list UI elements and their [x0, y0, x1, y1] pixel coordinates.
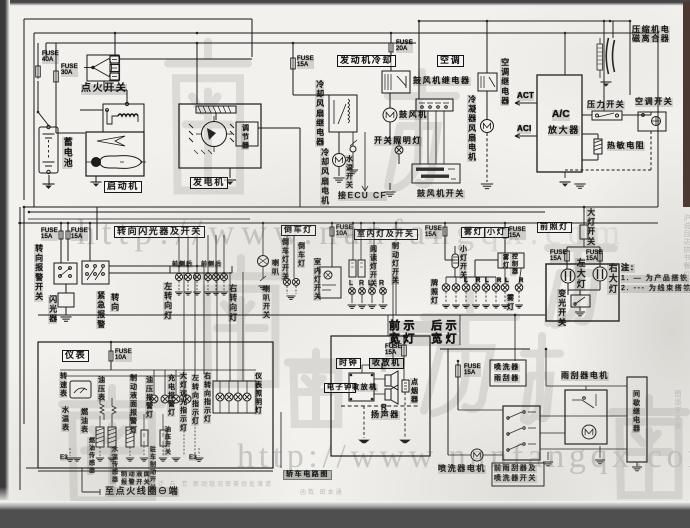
label FUSE 30A [61, 64, 78, 77]
label panel illumination 仪表照明灯 [254, 372, 262, 415]
fuse FUSE15A radio [402, 343, 407, 358]
label high beam ind 大灯远光指示灯 [179, 372, 187, 432]
label oil switch 油压开关 [163, 426, 169, 456]
parking brake switch sym [141, 430, 148, 446]
label thermistor 热敏电阻 [607, 142, 645, 151]
wire washer fuse rail [457, 361, 459, 410]
label brake fluid warn switch line2 [121, 480, 151, 486]
fuse FUSE15A head R [598, 249, 603, 263]
wire washer links [448, 349, 637, 466]
label front rear marker 前示 后示 [389, 321, 460, 333]
junction node 2 [196, 32, 199, 35]
wire illum feeds [220, 381, 247, 393]
label fog lamps 雾灯 [506, 294, 514, 311]
label AC switch 空调开关 [635, 98, 673, 107]
label water temp switch 水温开关 [345, 155, 353, 189]
ground left turn front [175, 292, 183, 295]
horn 喇叭 [258, 256, 269, 267]
fuse FUSE15A fog [443, 225, 447, 238]
ghost marks in maroon bar [684, 20, 690, 68]
ground lamp row 2 [455, 292, 457, 304]
wire pressure sw leads [582, 112, 651, 115]
label blower relay 鼓风机继电器 [413, 77, 471, 86]
label title 转向闪光器及开关 [114, 226, 205, 238]
note line 2 [621, 285, 690, 293]
ground lamp row 4 [475, 292, 477, 304]
water temp switch 水温开关 [350, 132, 357, 168]
label FUSE 15A radio [385, 344, 402, 357]
label R at 478 [476, 278, 480, 284]
label reverse lamp right 倒车灯 [297, 242, 305, 268]
label FUSE 15A turn2 [71, 228, 88, 241]
wire blower leads [389, 93, 391, 145]
wire int fuse rail [331, 223, 333, 267]
wm glyph fang 1 [388, 72, 456, 188]
label AC relay 空调继电器 [500, 58, 509, 106]
label washer motor right 喷洗[器电机] [437, 465, 439, 467]
junction node 6 [486, 20, 489, 23]
label brake fluid warn lamp 制动液面报警灯 [129, 374, 137, 434]
label instruments 仪表 [62, 350, 89, 362]
watermark url row 1 [77, 211, 627, 253]
junction node 30 [196, 265, 199, 268]
wire illum lamp lead [398, 140, 400, 164]
wire ACI arrow [515, 134, 537, 138]
speaker L [385, 371, 398, 390]
wire horn leads [260, 223, 266, 281]
junction node 28 [178, 265, 181, 268]
map lamp sockets [349, 260, 365, 277]
wire illum gnds [220, 401, 247, 413]
ghost column right margin [681, 214, 690, 294]
lamp left turn side [184, 273, 191, 280]
wire blower fuse rail [390, 33, 392, 71]
ground left turn side [184, 292, 192, 295]
label FUSE 40A [42, 51, 59, 64]
wire lamp top feeds [170, 266, 232, 273]
junction node 31 [207, 272, 210, 275]
junction node 35 [514, 314, 517, 317]
wire alt top feed [196, 43, 198, 104]
wire band line y223 [18, 222, 658, 224]
blower switch 鼓风机开关 [412, 164, 460, 183]
junction fuse rails [37, 111, 40, 114]
alternator assembly [179, 104, 261, 168]
left scanner bar [0, 0, 10, 500]
label 放大器 [548, 126, 580, 136]
lamp position row 6 [492, 284, 500, 292]
lamp map R [359, 288, 366, 295]
junction node 34 [545, 348, 548, 351]
label right headlamp 右大灯 [607, 263, 617, 295]
ground sym lamp row 5 [482, 305, 490, 308]
lamp reverse left [283, 278, 290, 285]
junction node 10 [629, 20, 632, 23]
ground cluster row 2 [96, 458, 104, 461]
junction node 5 [418, 20, 421, 23]
label horn switch 喇叭开关 [262, 285, 270, 319]
ground cluster row 1 [73, 458, 81, 461]
battery 蓄电池 [39, 125, 58, 173]
junction node 4 [390, 32, 393, 35]
wire fan fuse rail [293, 43, 329, 95]
junction node 26 [403, 335, 406, 338]
lamp read R [380, 288, 387, 295]
label right turn lamps 右转向灯 [228, 284, 237, 322]
lamp charge warn [172, 395, 180, 403]
junction node 32 [215, 272, 218, 275]
label reverse switch 倒车灯开关 [281, 238, 289, 281]
washer wiper label box [490, 360, 526, 386]
cigarette lighter 点烟器 [402, 380, 409, 392]
label regulator 调节器 [241, 124, 249, 150]
motor blower 鼓风机 [383, 108, 397, 122]
lamp illum 3 [234, 393, 242, 401]
ground E3 right [195, 458, 204, 461]
wire dimmer gnd [579, 307, 581, 311]
label dimmer switch 变光开关 [557, 289, 566, 327]
right headlamp bulb [593, 267, 607, 281]
ghost column right margin 2 [672, 390, 682, 430]
label FUSE 15A turn1 [41, 228, 58, 241]
compressor clutch coil and plates [597, 21, 630, 95]
label charge warn lamp 充电报警灯 [167, 374, 175, 417]
junction node 29 [187, 265, 190, 268]
tachometer gauge [70, 381, 91, 398]
label FUSE 20A [396, 40, 413, 53]
label FUSE 15A small [509, 227, 526, 240]
ground flasher [60, 317, 71, 321]
ground sym lamp row 7 [501, 305, 509, 308]
wm glyph stroke col [524, 336, 560, 421]
label oil pressure 油压表 [97, 376, 105, 402]
left headlamp bulb [561, 269, 575, 283]
label radio head 收放机 [369, 358, 404, 369]
label reverse lamp 倒车灯 [281, 225, 316, 236]
wire ACT arrow [515, 101, 537, 105]
label reading lamp switch 阅读灯开关 [369, 245, 377, 288]
ground sym lamp row 4 [472, 305, 480, 308]
ground cluster row 3 [108, 458, 116, 461]
wiper switch blades [507, 411, 536, 451]
wire sensor gnd dashed [100, 446, 163, 456]
ground blower switch [384, 192, 395, 196]
wire starter gnd lead [95, 176, 97, 182]
fuse FUSE15A turn 2 [66, 229, 70, 241]
label plate lamp 牌照灯 [430, 279, 438, 305]
ground sym lamp row 2 [452, 305, 460, 308]
ghost text row bottom left [150, 479, 273, 488]
wire fuse40 rail [38, 43, 49, 126]
junction node 25 [110, 341, 113, 344]
wire radio fuse rail [403, 336, 405, 365]
ground radio R [400, 440, 410, 443]
wire drop to washer 1 [459, 315, 461, 345]
sensor fuel 燃油传感器 [96, 427, 104, 447]
label cooling fan motor 冷却风扇电机 [320, 148, 329, 206]
junction node 21 [504, 222, 507, 225]
wire interior gnd leads [352, 295, 383, 303]
label speaker 扬声器 [371, 411, 400, 420]
wire bus y43 [46, 43, 416, 58]
junction node 17 [360, 222, 363, 225]
motor washer 喷洗器电机 [471, 449, 483, 461]
label front wiper line1 [494, 465, 537, 473]
wire headlamp links [567, 261, 600, 295]
junction node 33 [223, 272, 226, 275]
note header 注: [621, 264, 635, 273]
wire band left verticals [20, 207, 24, 490]
wire bus y33 [34, 33, 658, 207]
fog control relay 雾灯控制器 [498, 253, 524, 268]
wire sensor drops [100, 414, 163, 430]
label fuel sender 燃油传感器 [87, 437, 93, 475]
wire band line y212 [29, 211, 545, 213]
ground lamp row 7 [504, 292, 506, 304]
lamp position row 4 [472, 284, 480, 292]
wire radio gnd dashed R [404, 392, 406, 438]
speaker R [385, 385, 398, 404]
label L at 466 [464, 278, 468, 284]
headlight switch body [580, 212, 588, 247]
label fog relay text [501, 254, 507, 269]
ground sym lamp row 8 [515, 305, 523, 308]
wire ts fuse2 rail [67, 223, 69, 261]
label front-side-rear R 前侧后 [201, 262, 222, 268]
hazard switch box 紧急报警 [82, 261, 109, 284]
label clock 时钟 [336, 358, 361, 369]
label L at 487 [485, 278, 489, 284]
junction node 14 [262, 222, 265, 225]
wire condenser leads [486, 91, 488, 120]
lamp map L [349, 288, 356, 295]
small lamp switch body [452, 246, 459, 277]
wire drop to cluster 6 [242, 272, 244, 381]
intermittent relay box 间歇继电器 [627, 377, 647, 462]
fuse FUSE30A [54, 69, 59, 84]
label front-side-rear L 前侧后 [172, 262, 193, 268]
junction node 13 [89, 222, 92, 225]
ground water temp switch [348, 170, 358, 174]
lamp position row 2 [452, 284, 460, 292]
label oil warn lamp 油压报警灯 [145, 376, 153, 419]
label switch illum 开关照明灯 [374, 137, 422, 146]
junction node 15 [331, 222, 334, 225]
label FUSE 15A fog [425, 226, 442, 239]
label FUSE 10A cluster [115, 349, 132, 362]
label tachometer 转速表 [59, 372, 67, 398]
wire band bottom y315 [38, 314, 545, 316]
wm glyph fang 3 [424, 292, 516, 413]
wire band line y219 [28, 218, 250, 220]
wire cluster bus [60, 370, 256, 376]
wire washer top line [440, 349, 530, 455]
label battery 蓄电池 [62, 137, 72, 169]
wire turnswitch out [109, 266, 232, 273]
junction node 11 [60, 222, 63, 225]
junction node 16 [352, 222, 355, 225]
label water temp sensor 水温传感器 [110, 446, 116, 484]
ground right turn front [204, 292, 212, 295]
label horn 喇叭 [271, 259, 279, 276]
label right turn ind 右转向指示灯 [203, 372, 211, 424]
ground compressor clutch [601, 82, 612, 87]
blower resistor pack [416, 99, 453, 111]
wire amp feed [564, 33, 566, 75]
label AC 空调 [437, 55, 464, 67]
label FUSE 10A interior [336, 225, 353, 238]
junction alt feed [196, 42, 199, 45]
label radio unit 收放机 [352, 384, 378, 392]
motor cooling fan 冷却风扇电机 [333, 154, 346, 167]
wire rt lamp gnd dashed [208, 281, 224, 291]
ground cluster row 6 [159, 458, 167, 461]
wire flasher links [65, 284, 67, 315]
sensor water temp 水温传感器 [108, 427, 116, 447]
junction node 12 [67, 222, 70, 225]
label L at 507 [505, 278, 509, 284]
label cigarette lighter 点烟器 [410, 378, 418, 404]
wire battery gnd lead [48, 175, 50, 185]
junction radio c2 [371, 374, 374, 377]
label fog lamp 雾灯 [461, 227, 486, 238]
label fog relay text2 [510, 253, 516, 276]
label small lamp 小灯 [484, 227, 509, 238]
ground pressure circuit dashed [574, 184, 585, 188]
lights section box [546, 264, 619, 321]
label 接ECU CF [338, 192, 387, 201]
wire ign feed [120, 58, 253, 60]
label ACI [517, 125, 531, 134]
wire fog relay feed [475, 240, 505, 277]
wire top right box [419, 21, 630, 111]
thermistor 热敏电阻 [594, 139, 602, 154]
label title 室内灯及开关 [354, 229, 418, 240]
wire e3 dashes [70, 416, 199, 456]
AC relay 空调继电器 [478, 73, 497, 91]
label FUSE 15A washer [464, 364, 481, 377]
label left turn lamps 左转向灯 [163, 282, 172, 320]
ground lamp row 1 [445, 292, 447, 304]
wire blower switch gnd [389, 183, 391, 190]
ground E3 left [66, 458, 75, 461]
label hazard 紧急报警 [96, 291, 105, 329]
starter motor assembly [80, 102, 146, 176]
ground relay [632, 467, 642, 471]
lamp reverse right [292, 278, 299, 285]
junction node 8 [603, 20, 606, 23]
wire rt lamp feeds [208, 235, 224, 273]
label engine cooling 发动机冷却 [337, 55, 396, 67]
flasher box 闪光器 [58, 293, 74, 307]
ground lamp row 6 [495, 292, 497, 304]
top scanner bar [0, 0, 690, 6]
lamp position row 7 [501, 284, 509, 292]
label FUSE 15A cooling [297, 56, 314, 69]
ground reverse lamps [287, 296, 296, 299]
label alternator 发电机 [190, 177, 228, 189]
wire condenser feed [486, 21, 488, 73]
junction band left [28, 211, 31, 214]
junction node 1 [114, 32, 117, 35]
lamp right turn side [212, 273, 219, 280]
label blower 鼓风机 [399, 111, 428, 120]
fuse FUSE20A [389, 41, 393, 54]
wm glyph nan 2 [198, 258, 284, 384]
motor wiper [582, 425, 596, 439]
label flasher 闪光器 [48, 295, 57, 324]
wire ecu lead [362, 132, 368, 191]
ground starter [91, 182, 102, 187]
label FUSE15A head R [586, 250, 603, 263]
wire cluster fuse rail [110, 342, 112, 370]
label turn 转向 [110, 293, 119, 312]
junction node 20 [444, 222, 447, 225]
wire amp gnd lead [564, 172, 566, 178]
dimmer switch body [571, 295, 590, 307]
label wiper 雨刮器 [494, 375, 520, 383]
junction radio c3 [350, 398, 353, 401]
lamp position row 3 [462, 284, 470, 292]
junction node 18 [373, 222, 376, 225]
wire small fuse rail [504, 223, 506, 251]
wire interior feeds [353, 223, 374, 268]
wire cluster bottom double [20, 424, 273, 471]
fuse FUSE15A turn 1 [59, 229, 63, 241]
label interior lamp switch 室内灯开关 [313, 258, 321, 301]
wiper motor box [565, 390, 607, 444]
fuse FUSE15A head L [565, 249, 570, 263]
wire fog lamp leads [505, 268, 521, 283]
label cooling fan relay 冷却风扇继电器 [315, 80, 324, 147]
wm glyph nan 4 [62, 388, 162, 501]
label L map [349, 280, 353, 288]
label R speaker [381, 404, 387, 413]
lamp left turn rear [193, 273, 200, 280]
wire lt lamp gnd dashed [179, 281, 197, 291]
motor condenser fan 冷凝器风扇电机 [481, 120, 494, 133]
junction radio c1 [350, 374, 353, 377]
ground condenser fan [481, 184, 493, 189]
lamp illum 1 [216, 393, 224, 401]
lamp position row 1 [442, 284, 450, 292]
label R at 499 [497, 278, 501, 284]
wire drop to washer 2 [514, 315, 516, 361]
wire AC switch dashed drop [565, 131, 651, 170]
wire washer gnds [548, 446, 600, 460]
wire coil terminal lead [82, 468, 100, 495]
ghost text row bottom mid [300, 487, 344, 496]
fuse FUSE10A interior [330, 225, 334, 238]
wire reverse drops [287, 235, 294, 278]
label intermittent relay 间歇继电器 [632, 390, 640, 433]
wire drop to cluster 3 [203, 266, 205, 374]
label left headlamp 左大灯 [575, 258, 585, 290]
ground lamp row 8 [518, 292, 520, 304]
resistor sym temp [112, 398, 116, 422]
wm glyph blot right [612, 398, 686, 495]
ground lamp row 3 [465, 292, 467, 304]
label diagram title 轿车电路图 [283, 470, 332, 480]
ground dimmer switch [575, 312, 585, 316]
dome lamp box [319, 267, 341, 298]
label washer motor 喷洗器电机 [438, 465, 486, 474]
AC switch body [638, 112, 666, 131]
ground interior 2 [358, 305, 367, 308]
junction radio c4 [371, 398, 374, 401]
ground AC amplifier [560, 182, 571, 187]
label headlight switch 大灯开关 [586, 208, 595, 246]
